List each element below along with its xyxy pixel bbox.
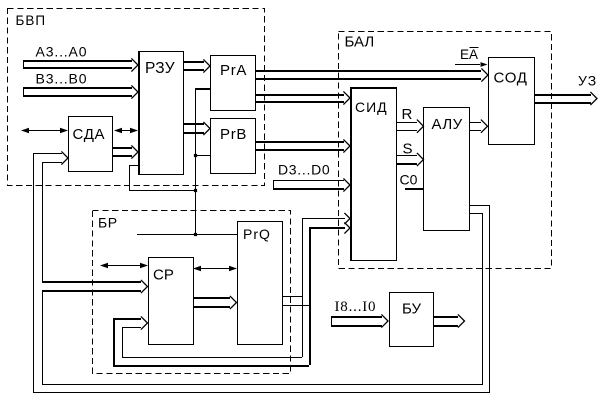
svg-text:S: S xyxy=(403,141,413,158)
svg-text:D3...D0: D3...D0 xyxy=(278,162,330,178)
svg-text:СР: СР xyxy=(153,267,174,284)
svg-text:ЕА: ЕА xyxy=(460,47,478,62)
svg-text:С0: С0 xyxy=(400,172,418,188)
svg-text:СИД: СИД xyxy=(355,99,388,115)
svg-text:БР: БР xyxy=(98,214,118,230)
svg-text:БВП: БВП xyxy=(16,13,47,28)
svg-text:А3...А0: А3...А0 xyxy=(36,43,88,59)
svg-text:PrA: PrA xyxy=(220,62,247,79)
svg-text:РЗУ: РЗУ xyxy=(145,60,175,77)
svg-text:УЗ: УЗ xyxy=(578,73,597,89)
svg-text:PrQ: PrQ xyxy=(243,226,271,242)
svg-text:АЛУ: АЛУ xyxy=(432,116,463,133)
svg-text:R: R xyxy=(402,106,413,123)
svg-text:В3...В0: В3...В0 xyxy=(36,70,88,86)
svg-text:БУ: БУ xyxy=(402,301,421,318)
svg-text:I8...I0: I8...I0 xyxy=(335,299,377,315)
svg-text:PrB: PrB xyxy=(220,126,247,143)
svg-text:СОД: СОД xyxy=(494,70,528,87)
svg-text:СДА: СДА xyxy=(73,126,106,143)
svg-text:БАЛ: БАЛ xyxy=(345,33,375,50)
